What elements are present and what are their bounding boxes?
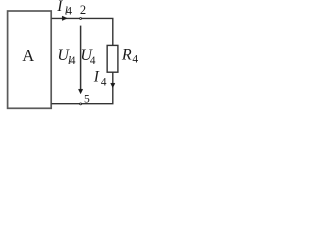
current arrow I_4 below resistor	[111, 83, 115, 88]
svg-text:4: 4	[66, 6, 72, 18]
node 2	[80, 18, 82, 20]
wire top: node 2 branch from A to R4	[51, 18, 112, 45]
svg-text:4: 4	[101, 77, 107, 89]
svg-text:5: 5	[84, 93, 90, 105]
svg-text:I: I	[93, 69, 100, 86]
svg-text:A: A	[22, 46, 34, 65]
svg-text:2: 2	[80, 3, 86, 17]
box A (two-terminal network)	[8, 11, 52, 108]
svg-text:I: I	[56, 0, 63, 15]
wire bottom: from A to R4 bottom	[51, 72, 112, 104]
svg-text:4: 4	[132, 53, 138, 65]
svg-text:4: 4	[70, 55, 76, 67]
svg-text:4: 4	[90, 55, 96, 67]
resistor R4	[107, 45, 118, 72]
node 5	[80, 103, 82, 105]
voltage arrow U4 (node 2 to node 5)	[80, 26, 82, 90]
current arrow I_l4 on top wire	[62, 16, 67, 21]
svg-text:R: R	[121, 46, 132, 63]
